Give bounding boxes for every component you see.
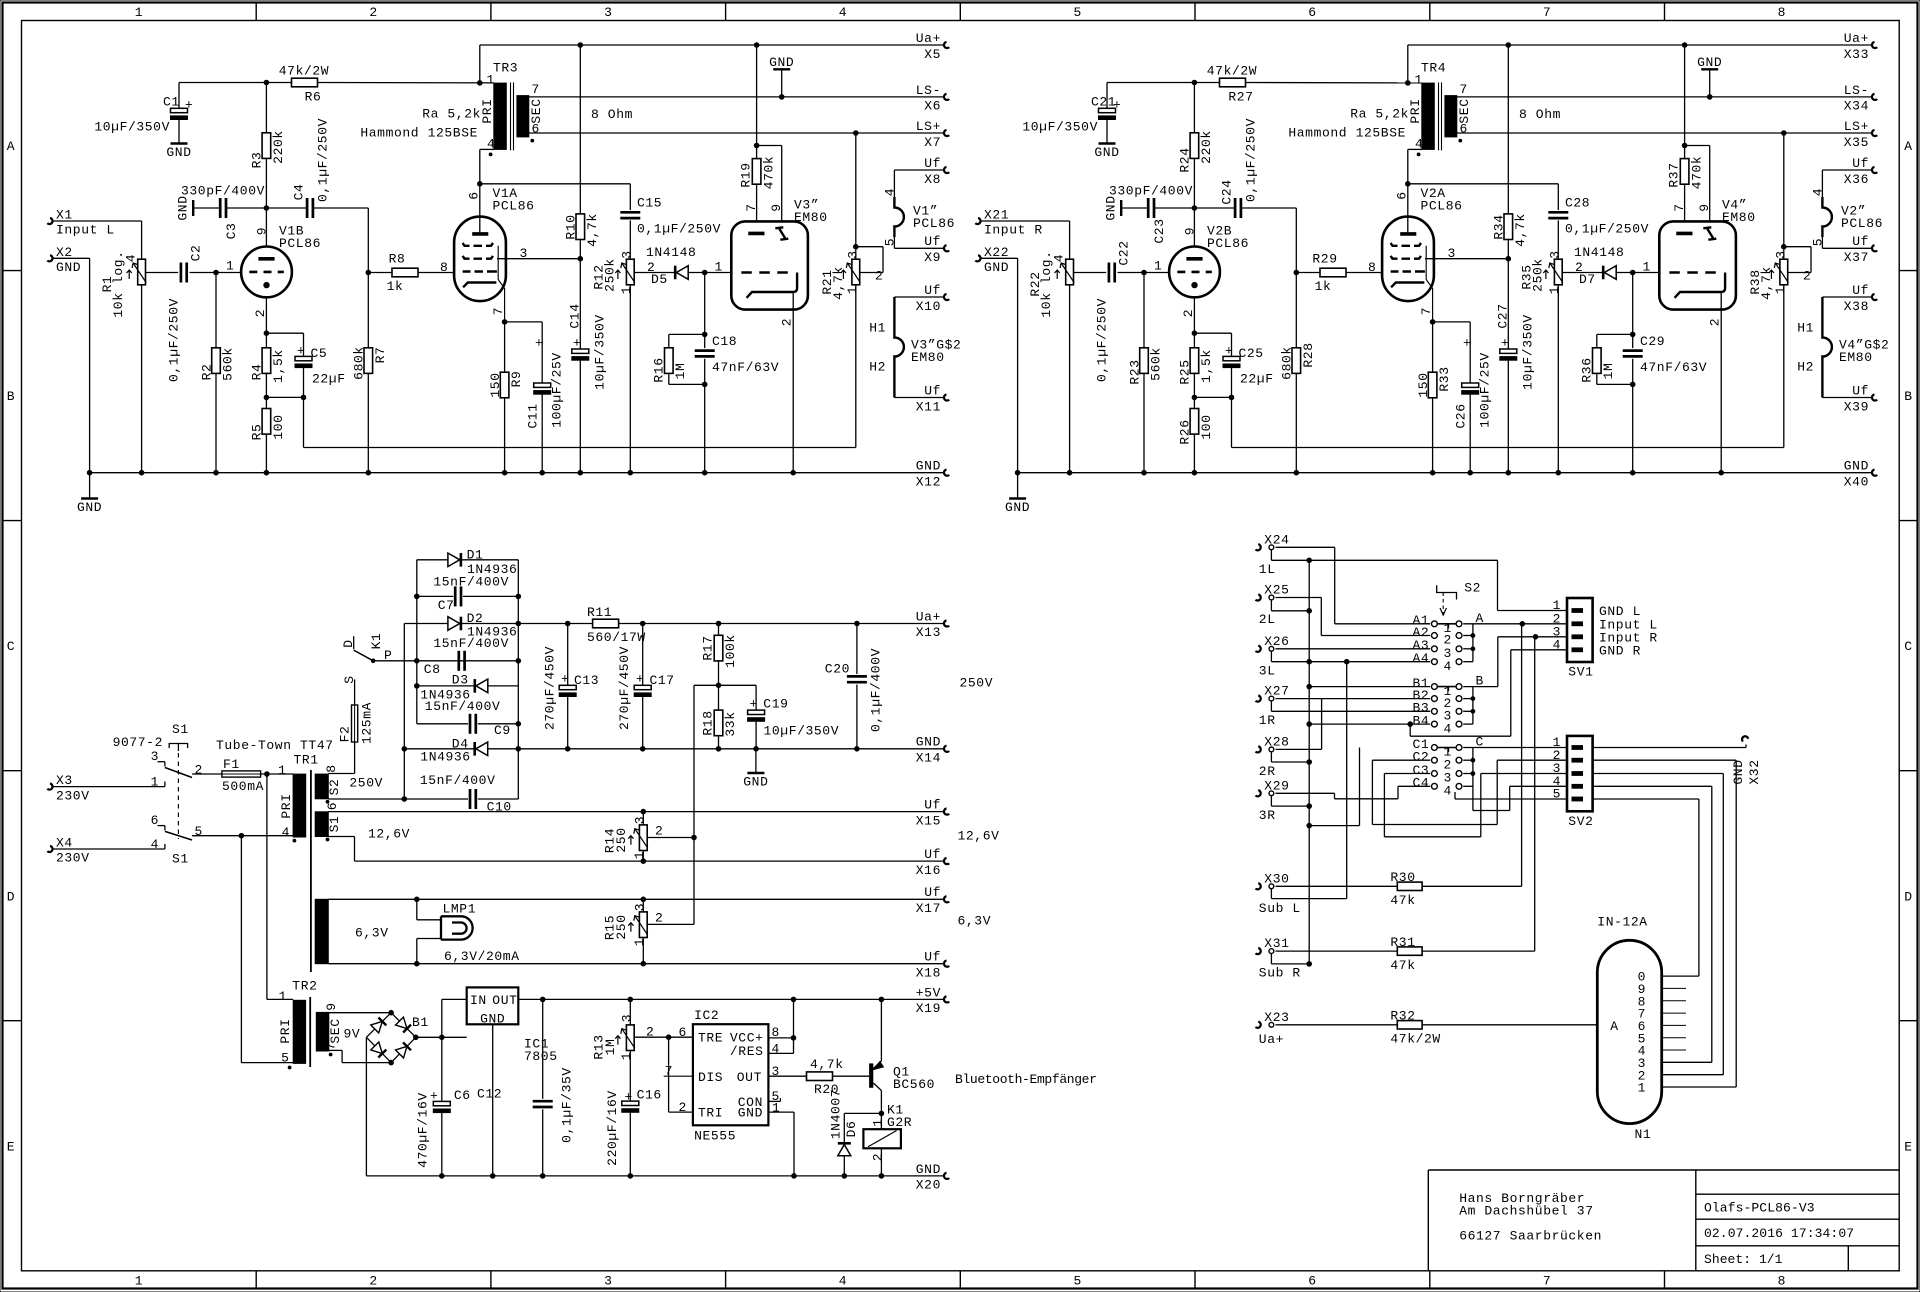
svg-text:0,1µF/400V: 0,1µF/400V bbox=[869, 648, 884, 732]
svg-text:A: A bbox=[1904, 139, 1912, 154]
svg-text:220k: 220k bbox=[271, 130, 286, 164]
wire bbox=[893, 170, 895, 197]
svg-text:4: 4 bbox=[151, 837, 159, 852]
svg-text:C4: C4 bbox=[292, 184, 307, 201]
capacitor C9 15nF/400V bbox=[417, 723, 468, 725]
connector X40 GND bbox=[1872, 470, 1877, 476]
wire 6,3V bbox=[328, 898, 943, 900]
svg-text:7: 7 bbox=[491, 307, 506, 315]
regulator IC1 7805 bbox=[467, 987, 519, 1024]
svg-text:X11: X11 bbox=[916, 399, 941, 414]
svg-text:X3: X3 bbox=[56, 773, 73, 788]
svg-text:1: 1 bbox=[632, 938, 647, 946]
capacitor C1 10uF/350V bbox=[178, 83, 180, 109]
svg-text:A: A bbox=[7, 139, 15, 154]
svg-text:5: 5 bbox=[1073, 5, 1081, 20]
svg-text:1L: 1L bbox=[1259, 562, 1276, 577]
svg-text:15nF/400V: 15nF/400V bbox=[420, 773, 496, 788]
svg-text:Hammond 125BSE: Hammond 125BSE bbox=[1288, 126, 1406, 141]
svg-text:X35: X35 bbox=[1844, 135, 1869, 150]
svg-text:4: 4 bbox=[282, 825, 290, 840]
capacitor C29 47nF/63V bbox=[1623, 349, 1643, 352]
svg-text:GND: GND bbox=[769, 55, 794, 70]
wire bbox=[192, 773, 222, 775]
capacitor C7 15nF/400V bbox=[417, 595, 453, 597]
svg-text:3: 3 bbox=[633, 816, 648, 824]
wire B common to SV1 pin3 bbox=[1463, 686, 1498, 688]
svg-text:C29: C29 bbox=[1640, 334, 1665, 349]
svg-text:H1: H1 bbox=[1797, 321, 1814, 336]
svg-text:SEC: SEC bbox=[529, 98, 544, 123]
resistor R31 47k bbox=[1276, 950, 1398, 952]
svg-text:4: 4 bbox=[1444, 721, 1452, 736]
svg-text:250k: 250k bbox=[1531, 258, 1546, 292]
svg-text:LS-: LS- bbox=[1844, 83, 1869, 98]
svg-text:4: 4 bbox=[772, 1042, 780, 1057]
ground bbox=[1017, 473, 1019, 499]
svg-text:Uf: Uf bbox=[924, 847, 941, 862]
svg-text:1,5k: 1,5k bbox=[271, 349, 286, 383]
connector X10 Uf bbox=[944, 294, 949, 300]
svg-text:GND: GND bbox=[984, 260, 1009, 275]
svg-text:15nF/400V: 15nF/400V bbox=[433, 575, 509, 590]
svg-text:250V: 250V bbox=[349, 776, 383, 791]
wire GND rail bbox=[366, 1175, 943, 1177]
svg-text:B4: B4 bbox=[1412, 713, 1429, 728]
wire bbox=[1193, 297, 1195, 348]
svg-text:2: 2 bbox=[655, 824, 663, 839]
svg-text:C16: C16 bbox=[637, 1088, 662, 1103]
svg-text:4,7k: 4,7k bbox=[1513, 213, 1528, 247]
svg-text:12,6V: 12,6V bbox=[958, 829, 1000, 844]
wire bbox=[981, 220, 1070, 222]
svg-text:Ua+: Ua+ bbox=[916, 31, 941, 46]
resistor R7 680k bbox=[364, 348, 373, 374]
svg-text:R25: R25 bbox=[1178, 359, 1193, 384]
wire bbox=[53, 848, 165, 850]
svg-text:G2R: G2R bbox=[887, 1115, 912, 1130]
tube V2B PCL86 triode bbox=[1169, 247, 1220, 298]
potentiometer R21 4,7k bbox=[855, 133, 857, 259]
svg-text:C: C bbox=[7, 639, 15, 654]
potentiometer R14 250 bbox=[642, 812, 644, 825]
wire bbox=[416, 1036, 467, 1038]
svg-text:470µF/16V: 470µF/16V bbox=[416, 1092, 431, 1168]
svg-text:+: + bbox=[636, 672, 644, 687]
svg-text:2: 2 bbox=[195, 763, 203, 778]
svg-text:Ra 5,2k: Ra 5,2k bbox=[422, 107, 481, 122]
svg-text:10µF/350V: 10µF/350V bbox=[1521, 314, 1536, 390]
svg-text:7: 7 bbox=[324, 1042, 339, 1050]
svg-text:+: + bbox=[1113, 98, 1121, 113]
wire X24 jog to SV1 pin1 bbox=[1270, 550, 1272, 561]
svg-text:H2: H2 bbox=[869, 360, 886, 375]
svg-text:GND: GND bbox=[743, 775, 768, 790]
svg-text:6: 6 bbox=[532, 122, 540, 137]
svg-text:Input L: Input L bbox=[56, 223, 115, 238]
resistor R24 220k bbox=[1193, 83, 1195, 133]
svg-text:R23: R23 bbox=[1128, 359, 1143, 384]
svg-text:3: 3 bbox=[620, 250, 635, 258]
capacitor C27 10uF/350V bbox=[1507, 259, 1509, 349]
svg-text:7: 7 bbox=[1543, 1274, 1551, 1289]
svg-text:R2: R2 bbox=[200, 364, 215, 381]
svg-text:H2: H2 bbox=[1797, 360, 1814, 375]
svg-text:GND: GND bbox=[1731, 759, 1746, 784]
switch S2 bank A bbox=[1432, 621, 1438, 627]
svg-text:+: + bbox=[750, 697, 758, 712]
svg-text:B: B bbox=[7, 389, 15, 404]
wire bbox=[141, 285, 143, 473]
svg-text:GND: GND bbox=[176, 195, 191, 220]
svg-text:R18: R18 bbox=[701, 710, 716, 735]
wire bbox=[179, 82, 292, 84]
capacitor C13 270uF/450V bbox=[567, 624, 569, 686]
wire pin9 bbox=[1685, 145, 1710, 147]
wire bbox=[1193, 373, 1195, 408]
svg-text:250V: 250V bbox=[960, 676, 994, 691]
svg-text:6,3V/20mA: 6,3V/20mA bbox=[444, 949, 520, 964]
svg-text:1: 1 bbox=[619, 1052, 634, 1060]
svg-text:100µF/25V: 100µF/25V bbox=[550, 352, 565, 428]
wire bbox=[146, 272, 179, 274]
svg-text:9: 9 bbox=[324, 1002, 339, 1010]
svg-text:S2: S2 bbox=[1464, 581, 1481, 596]
svg-text:1N4007: 1N4007 bbox=[829, 1089, 844, 1139]
svg-text:PCL86: PCL86 bbox=[493, 199, 535, 214]
wire bbox=[367, 208, 369, 348]
wire bbox=[261, 773, 294, 775]
wire bbox=[1822, 296, 1871, 298]
svg-text:X2: X2 bbox=[56, 245, 73, 260]
svg-text:N1: N1 bbox=[1635, 1127, 1652, 1142]
connector X11 Uf bbox=[944, 394, 949, 400]
resistor R37 470k bbox=[1684, 45, 1686, 159]
svg-text:Uf: Uf bbox=[1852, 383, 1869, 398]
potentiometer R15 250 bbox=[642, 899, 644, 912]
svg-text:1: 1 bbox=[1638, 1081, 1646, 1096]
svg-text:S1: S1 bbox=[172, 852, 189, 867]
connector X13 Ua+ bbox=[944, 620, 949, 626]
svg-text:3R: 3R bbox=[1259, 808, 1276, 823]
svg-text:X10: X10 bbox=[916, 299, 941, 314]
svg-text:1N4148: 1N4148 bbox=[1574, 245, 1624, 260]
svg-text:4: 4 bbox=[1052, 254, 1067, 262]
timer IC2 NE555 bbox=[693, 1024, 769, 1125]
svg-text:PCL86: PCL86 bbox=[1841, 216, 1883, 231]
resistor R4 1,5k bbox=[262, 348, 271, 374]
svg-text:Input R: Input R bbox=[984, 223, 1043, 238]
connector X37 Uf bbox=[1872, 245, 1877, 251]
connector X7 LS+ bbox=[944, 130, 949, 136]
connector X25 2L bbox=[1256, 594, 1261, 600]
heater V2” PCL86 bbox=[1822, 197, 1832, 237]
svg-text:10µF/350V: 10µF/350V bbox=[764, 724, 840, 739]
capacitor C20 0,1uF/400V bbox=[856, 624, 858, 675]
svg-text:100: 100 bbox=[1199, 414, 1214, 439]
wire X29 to C4 bbox=[1276, 792, 1335, 794]
svg-text:6: 6 bbox=[1308, 1274, 1316, 1289]
svg-text:X22: X22 bbox=[984, 245, 1009, 260]
svg-text:8: 8 bbox=[440, 260, 448, 275]
svg-text:GND: GND bbox=[916, 1162, 941, 1177]
svg-text:X31: X31 bbox=[1264, 936, 1289, 951]
svg-text:560/17W: 560/17W bbox=[587, 630, 646, 645]
svg-text:R11: R11 bbox=[587, 605, 612, 620]
wire LS- bbox=[1457, 96, 1872, 98]
wire C common to SV2 pin1 bbox=[1463, 747, 1567, 749]
svg-text:230V: 230V bbox=[56, 788, 90, 803]
svg-text:330pF/400V: 330pF/400V bbox=[181, 184, 265, 199]
svg-text:5: 5 bbox=[195, 824, 203, 839]
svg-text:Uf: Uf bbox=[924, 283, 941, 298]
svg-text:R26: R26 bbox=[1178, 419, 1193, 444]
svg-text:6: 6 bbox=[1308, 5, 1316, 20]
capacitor C11 100uF/25V bbox=[505, 321, 543, 323]
connector X22 bbox=[975, 255, 980, 261]
connector X16 Uf bbox=[944, 858, 949, 864]
wire pole bbox=[373, 660, 456, 662]
svg-text:S: S bbox=[342, 675, 357, 683]
wire bbox=[1821, 237, 1823, 248]
svg-text:Bluetooth-Empfänger: Bluetooth-Empfänger bbox=[955, 1072, 1097, 1087]
connector X34 LS- bbox=[1872, 94, 1877, 100]
svg-text:R33: R33 bbox=[1437, 366, 1452, 391]
svg-text:4: 4 bbox=[1444, 659, 1452, 674]
svg-text:C20: C20 bbox=[825, 662, 850, 677]
capacitor C5 22uF bbox=[266, 332, 303, 334]
wire X24 to A1 bbox=[1276, 546, 1335, 548]
svg-text:1N4936: 1N4936 bbox=[420, 749, 470, 764]
svg-text:+: + bbox=[535, 336, 543, 351]
svg-text:X1: X1 bbox=[56, 208, 73, 223]
svg-text:X24: X24 bbox=[1264, 532, 1289, 547]
resistor R27 47k/2W bbox=[1220, 78, 1246, 87]
svg-text:5: 5 bbox=[1073, 1274, 1081, 1289]
svg-text:1M: 1M bbox=[1601, 363, 1616, 380]
svg-text:3: 3 bbox=[151, 749, 159, 764]
capacitor C24 0,1uF/250V bbox=[1194, 207, 1235, 209]
svg-text:TRI: TRI bbox=[698, 1106, 723, 1121]
svg-text:Tube-Town TT47: Tube-Town TT47 bbox=[216, 738, 334, 753]
svg-text:4,7k: 4,7k bbox=[585, 213, 600, 247]
svg-text:D7: D7 bbox=[1579, 272, 1596, 287]
svg-text:47nF/63V: 47nF/63V bbox=[712, 360, 779, 375]
svg-text:X39: X39 bbox=[1844, 399, 1869, 414]
svg-text:9077-2: 9077-2 bbox=[113, 735, 163, 750]
wire B4 row bbox=[1309, 723, 1430, 725]
diode D5 1N4148 bbox=[634, 272, 674, 274]
wire bbox=[318, 82, 494, 84]
svg-text:IN: IN bbox=[470, 993, 487, 1008]
wire +5V bbox=[518, 998, 943, 1000]
svg-text:EM80: EM80 bbox=[911, 350, 945, 365]
svg-text:33k: 33k bbox=[723, 711, 738, 736]
wire bus bbox=[1308, 560, 1310, 964]
wire X25 jog bbox=[1270, 600, 1272, 611]
svg-text:6: 6 bbox=[1460, 122, 1468, 137]
svg-text:TR2: TR2 bbox=[292, 979, 317, 994]
svg-text:8: 8 bbox=[1368, 260, 1376, 275]
svg-text:0,1µF/250V: 0,1µF/250V bbox=[1565, 222, 1649, 237]
svg-text:4: 4 bbox=[1553, 637, 1561, 652]
svg-text:1R: 1R bbox=[1259, 713, 1276, 728]
svg-text:9: 9 bbox=[769, 203, 784, 211]
resistor R3 220k bbox=[265, 83, 267, 133]
svg-text:DIS: DIS bbox=[698, 1070, 723, 1085]
connector X19 +5V bbox=[944, 996, 949, 1002]
svg-text:Uf: Uf bbox=[924, 383, 941, 398]
svg-text:LS+: LS+ bbox=[1844, 119, 1869, 134]
svg-text:Uf: Uf bbox=[924, 156, 941, 171]
svg-text:8 Ohm: 8 Ohm bbox=[1519, 107, 1561, 122]
svg-text:1: 1 bbox=[1415, 73, 1423, 88]
capacitor C16 220uF/16V bbox=[622, 1101, 639, 1105]
svg-text:F1: F1 bbox=[223, 757, 240, 772]
svg-text:X30: X30 bbox=[1264, 871, 1289, 886]
svg-text:X33: X33 bbox=[1844, 47, 1869, 62]
svg-text:X5: X5 bbox=[924, 47, 941, 62]
svg-text:D1: D1 bbox=[467, 548, 484, 563]
svg-text:R30: R30 bbox=[1390, 870, 1415, 885]
connector X9 Uf bbox=[944, 245, 949, 251]
svg-text:X37: X37 bbox=[1844, 250, 1869, 265]
capacitor C22 0,1uF/250V bbox=[1108, 263, 1111, 283]
svg-text:7: 7 bbox=[1460, 82, 1468, 97]
switch S2 bank B bbox=[1432, 684, 1438, 690]
wire digit 1 bbox=[1662, 1086, 1737, 1088]
svg-text:1: 1 bbox=[1643, 260, 1651, 275]
svg-text:C25: C25 bbox=[1239, 346, 1264, 361]
svg-text:150: 150 bbox=[1416, 372, 1431, 397]
wire bbox=[1074, 272, 1107, 274]
diode D1 1N4936 bbox=[417, 559, 448, 561]
svg-text:5: 5 bbox=[883, 238, 898, 246]
diode D7 1N4148 bbox=[1562, 272, 1602, 274]
wire 12,6V bbox=[328, 811, 943, 813]
svg-text:GND: GND bbox=[916, 459, 941, 474]
svg-text:X13: X13 bbox=[916, 625, 941, 640]
wire bbox=[1822, 397, 1871, 399]
wire bbox=[328, 773, 354, 775]
wire pin2 bbox=[668, 1037, 670, 1112]
svg-text:X40: X40 bbox=[1844, 474, 1869, 489]
wire 250V bbox=[328, 798, 404, 800]
svg-text:C11: C11 bbox=[526, 403, 541, 428]
svg-text:+: + bbox=[561, 672, 569, 687]
svg-text:1: 1 bbox=[135, 1274, 143, 1289]
wire bbox=[981, 257, 1018, 259]
wire bbox=[53, 220, 142, 222]
svg-text:7: 7 bbox=[1543, 5, 1551, 20]
svg-text:X17: X17 bbox=[916, 901, 941, 916]
svg-text:GND: GND bbox=[1844, 459, 1869, 474]
resistor R29 1k bbox=[1296, 272, 1320, 274]
tube V2A PCL86 pentode bbox=[1382, 217, 1434, 302]
svg-text:GND: GND bbox=[1094, 145, 1119, 160]
svg-text:C24: C24 bbox=[1220, 179, 1235, 204]
wire bbox=[1107, 82, 1220, 84]
resistor R20 4,7k bbox=[768, 1075, 806, 1077]
connector X2 bbox=[47, 255, 52, 261]
svg-text:66127 Saarbrücken: 66127 Saarbrücken bbox=[1459, 1229, 1602, 1244]
svg-text:47nF/63V: 47nF/63V bbox=[1640, 360, 1707, 375]
svg-text:02.07.2016 17:34:07: 02.07.2016 17:34:07 bbox=[1704, 1226, 1854, 1241]
svg-text:1M: 1M bbox=[603, 1039, 618, 1056]
connector X23 Ua+ bbox=[1256, 1022, 1261, 1028]
resistor R23 560k bbox=[1143, 273, 1145, 348]
svg-text:1,5k: 1,5k bbox=[1199, 349, 1214, 383]
svg-text:E: E bbox=[7, 1139, 15, 1154]
svg-text:270µF/450V: 270µF/450V bbox=[543, 646, 558, 730]
svg-text:3: 3 bbox=[620, 1014, 635, 1022]
resistor R26 100 bbox=[1190, 409, 1199, 435]
potentiometer R35 250k bbox=[1554, 259, 1562, 285]
svg-text:C5: C5 bbox=[311, 346, 328, 361]
wire pin6 anode bbox=[479, 149, 481, 234]
wire X30 jog bbox=[1270, 889, 1272, 899]
svg-text:D6: D6 bbox=[844, 1121, 859, 1138]
svg-text:SEC: SEC bbox=[328, 1018, 343, 1043]
svg-text:C13: C13 bbox=[574, 673, 599, 688]
resistor R6 47k/2W bbox=[292, 78, 318, 87]
svg-text:R32: R32 bbox=[1390, 1009, 1415, 1024]
svg-text:Ua+: Ua+ bbox=[1844, 31, 1869, 46]
svg-text:C6: C6 bbox=[454, 1088, 471, 1103]
svg-text:1: 1 bbox=[135, 5, 143, 20]
svg-text:2L: 2L bbox=[1259, 612, 1276, 627]
diode D2 1N4936 bbox=[404, 623, 448, 625]
capacitor C28 0,1uF/250V bbox=[1548, 211, 1568, 214]
lamp LMP1 6,3V/20mA bbox=[416, 899, 418, 920]
wire bbox=[53, 786, 165, 788]
connector SV1 bbox=[1567, 598, 1593, 662]
resistor R2 560k bbox=[215, 273, 217, 348]
wire GND bus bbox=[518, 748, 943, 750]
wire bbox=[704, 273, 706, 349]
connector X12 GND bbox=[944, 470, 949, 476]
potentiometer R13 1M bbox=[629, 999, 631, 1025]
svg-text:2: 2 bbox=[369, 1274, 377, 1289]
svg-text:R36: R36 bbox=[1580, 357, 1595, 382]
svg-text:C12: C12 bbox=[477, 1086, 502, 1101]
wire X26 jog / A4 bbox=[1270, 651, 1272, 662]
svg-text:OUT: OUT bbox=[492, 993, 517, 1008]
wire LS+ bbox=[529, 132, 944, 134]
connector X39 Uf bbox=[1872, 394, 1877, 400]
svg-text:X14: X14 bbox=[916, 750, 941, 765]
capacitor C12 0,1uF/35V bbox=[542, 999, 544, 1098]
svg-text:3L: 3L bbox=[1259, 663, 1276, 678]
svg-text:2: 2 bbox=[780, 318, 795, 326]
svg-text:4: 4 bbox=[124, 254, 139, 262]
resistor R33 150 bbox=[1432, 322, 1434, 372]
svg-text:R8: R8 bbox=[389, 252, 406, 267]
resistor R32 47k/2W bbox=[1276, 1024, 1398, 1026]
wire LS+ bbox=[1457, 132, 1872, 134]
connector X30 Sub L bbox=[1256, 883, 1261, 889]
svg-text:1: 1 bbox=[1547, 286, 1562, 294]
svg-text:0,1µF/250V: 0,1µF/250V bbox=[1244, 118, 1259, 202]
svg-text:C26: C26 bbox=[1454, 403, 1469, 428]
svg-text:5: 5 bbox=[1553, 787, 1561, 802]
connector X36 Uf bbox=[1872, 167, 1877, 173]
svg-text:B1: B1 bbox=[412, 1015, 429, 1030]
svg-text:EM80: EM80 bbox=[1839, 350, 1873, 365]
svg-text:1: 1 bbox=[715, 260, 723, 275]
wire X27 to B2 bbox=[1276, 698, 1431, 700]
svg-text:C15: C15 bbox=[637, 196, 662, 211]
